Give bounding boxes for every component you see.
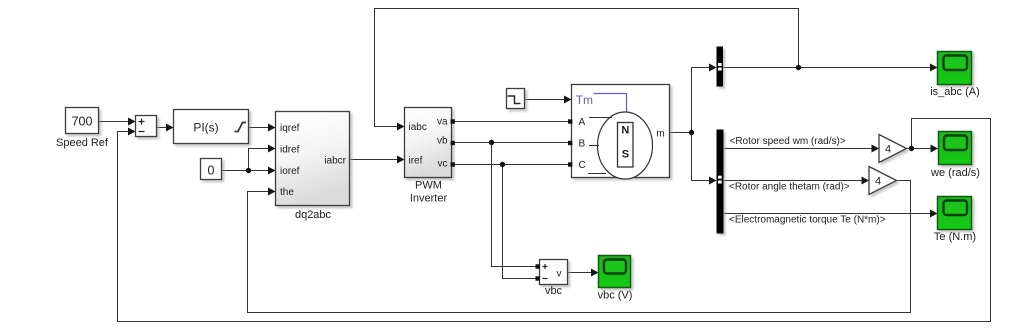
svg-text:vb: vb bbox=[437, 136, 448, 147]
svg-text:B: B bbox=[579, 139, 586, 150]
svg-text:the: the bbox=[280, 187, 294, 198]
svg-text:Tm: Tm bbox=[576, 93, 593, 107]
svg-text:A: A bbox=[579, 117, 586, 128]
svg-text:700: 700 bbox=[72, 115, 93, 129]
svg-text:is_abc (A): is_abc (A) bbox=[930, 86, 980, 98]
svg-text:vc: vc bbox=[438, 159, 448, 170]
svg-text:<Electromagnetic torque Te (N*: <Electromagnetic torque Te (N*m)> bbox=[729, 215, 886, 226]
svg-text:<Rotor angle thetam (rad)>: <Rotor angle thetam (rad)> bbox=[729, 182, 850, 193]
svg-text:Speed Ref: Speed Ref bbox=[56, 137, 109, 149]
svg-text:N: N bbox=[621, 125, 629, 137]
svg-text:iqref: iqref bbox=[280, 123, 300, 134]
svg-text:iref: iref bbox=[409, 156, 423, 167]
svg-text:v: v bbox=[557, 269, 562, 280]
svg-text:PWM: PWM bbox=[415, 180, 442, 192]
svg-text:C: C bbox=[579, 160, 586, 171]
svg-text:4: 4 bbox=[875, 176, 881, 188]
svg-text:vbc: vbc bbox=[545, 285, 563, 297]
svg-text:ioref: ioref bbox=[280, 166, 300, 177]
svg-text:<Rotor speed wm (rad/s)>: <Rotor speed wm (rad/s)> bbox=[730, 136, 846, 147]
svg-text:vbc (V): vbc (V) bbox=[598, 290, 633, 302]
svg-text:m: m bbox=[656, 129, 664, 140]
svg-text:we (rad/s): we (rad/s) bbox=[930, 167, 980, 179]
svg-text:va: va bbox=[437, 117, 448, 128]
svg-text:Inverter: Inverter bbox=[410, 193, 448, 205]
svg-text:iabc: iabc bbox=[409, 122, 427, 133]
svg-text:0: 0 bbox=[208, 164, 215, 178]
svg-text:PI(s): PI(s) bbox=[193, 121, 218, 135]
svg-text:S: S bbox=[622, 149, 629, 161]
svg-text:iabcr: iabcr bbox=[324, 156, 346, 167]
svg-text:Te (N.m): Te (N.m) bbox=[934, 231, 976, 243]
svg-text:idref: idref bbox=[280, 145, 300, 156]
svg-text:4: 4 bbox=[885, 144, 891, 156]
svg-text:dq2abc: dq2abc bbox=[295, 209, 332, 221]
